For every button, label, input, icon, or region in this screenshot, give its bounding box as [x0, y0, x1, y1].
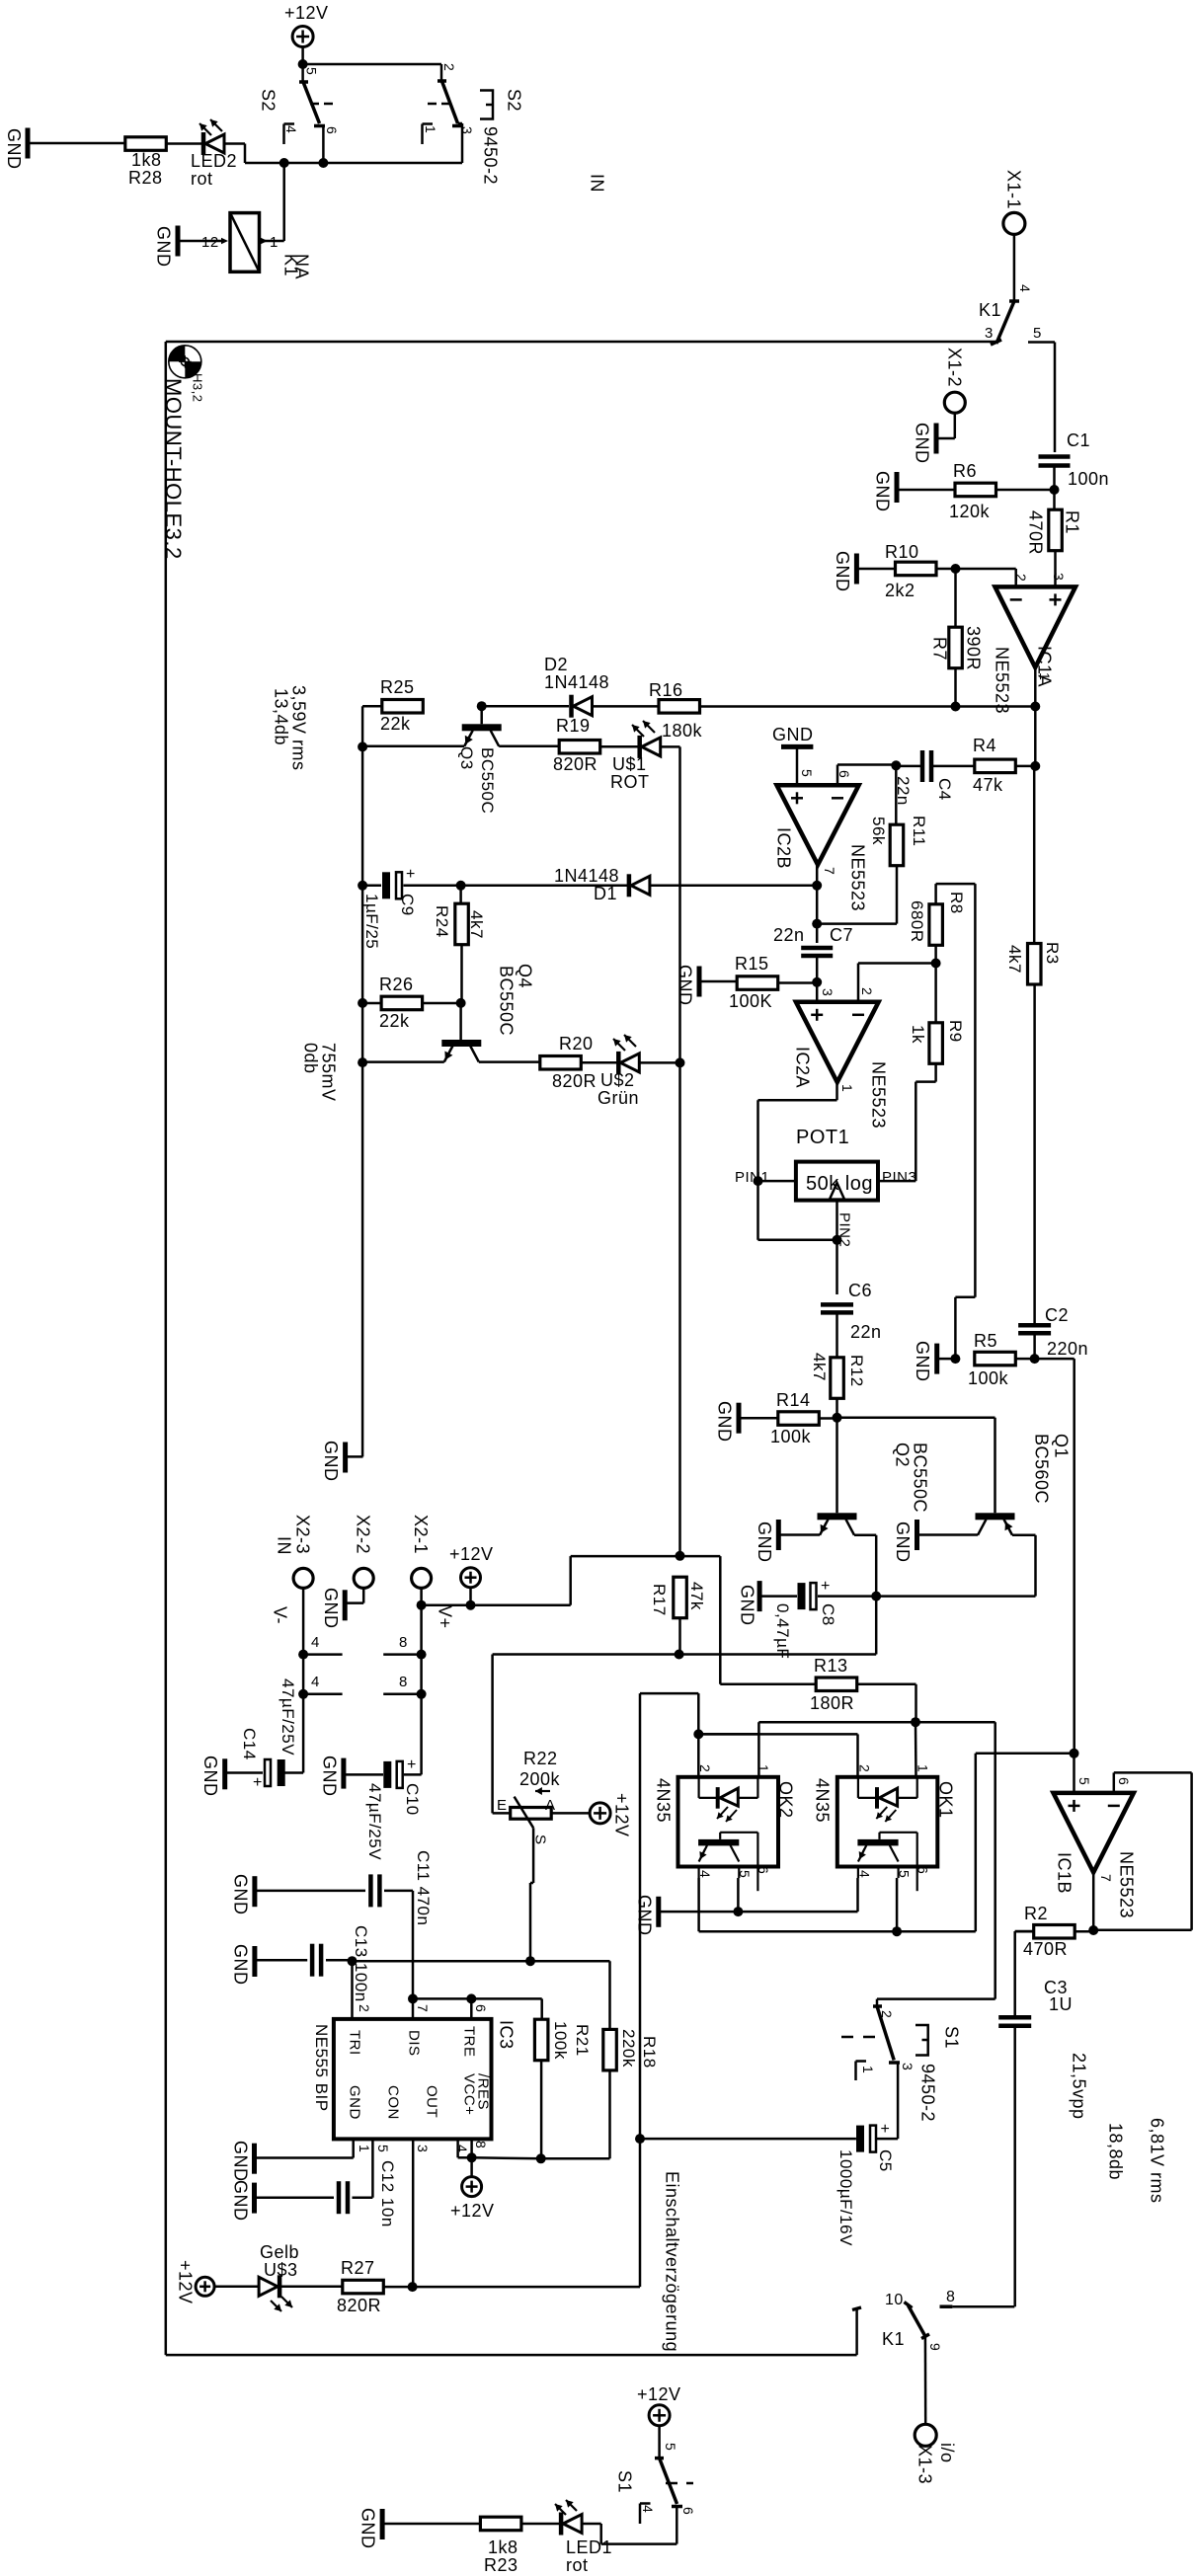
- svg-text:200k: 200k: [519, 1769, 561, 1789]
- label 22n (C6): [850, 1322, 882, 1342]
- wire bus jog to OK2 pin2 node: [698, 1733, 758, 1736]
- svg-text:Q1: Q1: [1052, 1434, 1072, 1458]
- svg-text:X2-1: X2-1: [411, 1515, 431, 1554]
- label 470R: [1026, 510, 1046, 555]
- wire C2 up to R3: [1033, 983, 1036, 1324]
- label C1: [1067, 430, 1090, 450]
- svg-text:Gelb: Gelb: [260, 2242, 299, 2262]
- svg-text:5: 5: [1076, 1777, 1092, 1785]
- svg-text:R14: R14: [776, 1390, 811, 1410]
- capacitor C9 1uF/25 (polarized): [382, 866, 416, 898]
- wire C8 right plate to junction: [818, 1595, 876, 1598]
- wire OK2pin2-OK1pin2 tie: [0, 0, 1, 1]
- svg-text:D1: D1: [594, 884, 617, 903]
- svg-text:C10: C10: [403, 1783, 422, 1816]
- label C14: [240, 1728, 259, 1760]
- svg-text:IN: IN: [588, 174, 607, 193]
- wire V- rail: [302, 1655, 305, 1694]
- node junction IC2B out/D1: [812, 881, 822, 891]
- svg-text:5: 5: [737, 1870, 753, 1878]
- svg-text:i/o: i/o: [937, 2443, 957, 2463]
- svg-text:3: 3: [415, 2145, 431, 2152]
- svg-text:2: 2: [1013, 574, 1029, 582]
- label Einschaltverzoegerung: [663, 2171, 682, 2352]
- wire X1-1 down to K1 pin4: [1013, 235, 1016, 302]
- label IC2A: [793, 1047, 813, 1088]
- svg-text:R15: R15: [735, 954, 769, 974]
- svg-text:220n: 220n: [1047, 1339, 1088, 1359]
- label 470R (R2): [1023, 1939, 1068, 1959]
- label R15: [735, 954, 769, 974]
- svg-text:C7: C7: [830, 925, 853, 945]
- svg-text:9450-2: 9450-2: [481, 126, 501, 185]
- wire R27 to OUT junction: [383, 2286, 412, 2289]
- svg-text:S2: S2: [259, 89, 279, 112]
- pin stub 4 of S1 bottom: [640, 2504, 656, 2525]
- label pin 2 of S1: [879, 2010, 895, 2018]
- node junction R4/output column: [1030, 761, 1040, 771]
- svg-text:47µF/25V: 47µF/25V: [279, 1678, 297, 1756]
- wire IN perimeter bottom (frame): [166, 2354, 857, 2357]
- svg-text:GND: GND: [893, 1522, 913, 1563]
- label D2: [544, 655, 568, 674]
- label R6: [953, 461, 977, 481]
- ground GND (C11): [231, 1874, 255, 1915]
- label 820R (R27): [337, 2296, 381, 2315]
- capacitor C5 1000uF/16V (polarized): [856, 2121, 890, 2152]
- svg-text:GND: GND: [873, 471, 893, 512]
- resistor R12 4k7: [831, 1358, 844, 1399]
- node junction R21 bottom: [536, 2153, 546, 2163]
- capacitor C1 100n: [1039, 457, 1071, 466]
- dashed mechanical coupling S2: [310, 103, 450, 106]
- label Q4: [516, 964, 535, 988]
- wire LED1 to R23: [521, 2523, 559, 2526]
- node junction R22 S joins: [525, 1956, 535, 1966]
- label C7: [830, 925, 853, 945]
- svg-text:470R: 470R: [1026, 510, 1046, 555]
- label C8: [819, 1603, 837, 1626]
- capacitor C10 47uF/25V (polarized): [383, 1756, 417, 1788]
- bracket mechanical S2: [480, 91, 493, 119]
- wire R2 left to C3 corner: [1015, 1930, 1034, 1933]
- svg-text:13,4db: 13,4db: [272, 688, 291, 745]
- wire node to IC1B pin5: [1073, 1754, 1075, 1793]
- label Gelb: [260, 2242, 299, 2262]
- wire R19 to U$1: [600, 745, 640, 748]
- label 1N4148 (D2): [544, 672, 609, 692]
- label H3,2: [190, 373, 204, 402]
- wire R1 to IC1A pin3: [1054, 551, 1057, 587]
- wire GND to R14: [739, 1417, 778, 1420]
- pin arrow 1 of K1 coil: [261, 234, 279, 251]
- wire junction to IC2A pin3: [816, 982, 819, 1002]
- svg-text:3: 3: [900, 2063, 915, 2070]
- svg-text:5: 5: [375, 2145, 391, 2152]
- node junction rail/C9: [358, 881, 367, 891]
- label 22k (R26): [379, 1011, 410, 1031]
- label NE5523 (IC2A): [869, 1061, 889, 1129]
- label NE5523 (IC1B): [1117, 1851, 1137, 1918]
- label S: [532, 1834, 549, 1845]
- wire S2b pin3 down to LED node: [323, 123, 462, 163]
- label K1 (bottom): [882, 2329, 905, 2349]
- resistor R8 680R: [929, 904, 943, 946]
- label R22: [523, 1749, 558, 1768]
- svg-text:8: 8: [399, 1674, 408, 1690]
- label U$1: [612, 754, 647, 774]
- svg-text:+12V: +12V: [637, 2384, 681, 2404]
- wire bus right to S1 column: [915, 1721, 995, 1724]
- svg-text:R2: R2: [1024, 1904, 1048, 1923]
- svg-text:R10: R10: [885, 542, 919, 562]
- svg-text:GND: GND: [4, 128, 24, 170]
- wire GND to R6: [897, 489, 955, 492]
- node junction PIN1: [754, 1176, 763, 1186]
- svg-text:GND: GND: [321, 1441, 341, 1482]
- label R8: [947, 892, 966, 914]
- svg-text:6: 6: [1116, 1777, 1132, 1785]
- svg-text:5: 5: [896, 1870, 912, 1878]
- svg-text:C1: C1: [1067, 430, 1090, 450]
- label IC3: [497, 2020, 517, 2050]
- label pin 5: [375, 2145, 391, 2152]
- label 2k2: [885, 581, 915, 600]
- svg-text:GND: GND: [320, 1756, 340, 1797]
- svg-text:BC550C: BC550C: [478, 747, 497, 814]
- label pin 7 DIS: [406, 2004, 431, 2057]
- svg-text:180k: 180k: [662, 721, 703, 741]
- svg-text:1: 1: [423, 125, 438, 133]
- svg-text:IN: IN: [275, 1536, 294, 1555]
- power +12V supply (U$3): [176, 2260, 215, 2304]
- svg-text:Q2: Q2: [893, 1443, 913, 1467]
- wire R22 A to +12V circle: [551, 1812, 590, 1815]
- node junction C1/R6/R1: [1050, 485, 1060, 495]
- svg-text:BC550C: BC550C: [497, 966, 517, 1036]
- wire C3 up to R2 corner: [1015, 1931, 1034, 2017]
- transistor Q3 BC550C: [462, 724, 502, 746]
- label R14: [776, 1390, 811, 1410]
- wire OK1 pin1 drop: [915, 1722, 917, 1777]
- svg-text:+: +: [821, 1578, 831, 1595]
- svg-text:GND: GND: [715, 1401, 735, 1443]
- svg-text:3: 3: [1051, 573, 1067, 581]
- pin stub 8 (IC power row1): [383, 1634, 421, 1655]
- label 13,4db: [272, 688, 291, 745]
- label C11 470n: [414, 1850, 433, 1925]
- svg-text:GND: GND: [772, 725, 814, 744]
- wire GND to R5 junction: [937, 1358, 956, 1361]
- svg-text:1: 1: [357, 2145, 372, 2152]
- ground GND (X2-2): [321, 1588, 345, 1629]
- label pin 7 of IC1B: [1098, 1874, 1114, 1882]
- transistor Q2 BC550C: [818, 1513, 857, 1535]
- svg-text:A: A: [545, 1797, 556, 1814]
- label pin 9 of K1: [927, 2343, 943, 2351]
- connector pad X1-3: [915, 2424, 936, 2446]
- wire C5 tap: [640, 2138, 856, 2141]
- svg-text:C11 470n: C11 470n: [414, 1850, 433, 1925]
- wire IC1A output pin1: [1034, 667, 1037, 707]
- wire junction to C4: [896, 765, 922, 768]
- svg-text:CON: CON: [385, 2085, 402, 2120]
- wire D1 to IC2B output junction: [650, 885, 817, 888]
- svg-text:R20: R20: [559, 1034, 594, 1054]
- ground GND (Q2): [755, 1520, 778, 1563]
- label NA: [292, 254, 312, 279]
- svg-text:9450-2: 9450-2: [918, 2064, 938, 2122]
- wire output row to R16: [699, 705, 1035, 708]
- LED U$2 Gruen: [613, 1035, 639, 1074]
- svg-text:4N35: 4N35: [654, 1778, 674, 1823]
- svg-text:6: 6: [836, 770, 852, 778]
- resistor R7 390R: [949, 627, 963, 668]
- svg-text:X1-1: X1-1: [1003, 170, 1023, 209]
- label 9450-2 (S1): [918, 2064, 938, 2122]
- wire R13 right corner down: [857, 1684, 916, 1722]
- label X1-3: [915, 2445, 935, 2484]
- svg-text:22k: 22k: [379, 1011, 410, 1031]
- wire +12V circle down: [469, 1588, 472, 1605]
- svg-text:GND: GND: [231, 1874, 251, 1915]
- label PIN1: [735, 1169, 769, 1186]
- switch S1 lever pins 2-3: [873, 2006, 900, 2063]
- wire D1 row: [461, 885, 629, 888]
- power +12V supply (R22): [590, 1793, 631, 1837]
- wire junction to Q2 base: [836, 1418, 838, 1514]
- label R27: [341, 2258, 375, 2278]
- switch K1 contact lever 4-3: [991, 301, 1019, 345]
- wire OK1 pin5 to row: [896, 1878, 899, 1931]
- label 3,59V rms: [289, 685, 309, 771]
- power +12V supply (NE555): [450, 2177, 495, 2221]
- label R20: [559, 1034, 594, 1054]
- label 9450-2 (S2 value): [481, 126, 501, 185]
- label 820R (R20): [552, 1071, 597, 1091]
- label LED1: [566, 2537, 612, 2557]
- svg-text:3: 3: [820, 988, 836, 996]
- pin arrow 12 of K1 coil: [201, 234, 228, 251]
- label 8 (K1): [946, 2289, 955, 2305]
- node junction OK2 pin5/GND: [733, 1907, 743, 1916]
- node junction +12V bus: [466, 1600, 476, 1610]
- label 21,5vpp: [1070, 2053, 1089, 2120]
- svg-text:755mV: 755mV: [319, 1043, 339, 1102]
- svg-text:6: 6: [756, 1866, 771, 1874]
- wire C12 to GND: [255, 2196, 335, 2199]
- svg-text:2: 2: [357, 2004, 372, 2012]
- wire IC2A output to PIN1: [758, 1082, 837, 1181]
- svg-text:NE5523: NE5523: [1117, 1851, 1137, 1918]
- label C2: [1045, 1305, 1069, 1325]
- resistor R13 180R: [816, 1678, 857, 1691]
- wire IC2B pin6 up and right: [837, 765, 896, 786]
- wire C7 to R15 junction: [816, 957, 819, 982]
- node junction R7 row: [951, 702, 961, 712]
- wire +12V to S1 lever: [658, 2426, 661, 2459]
- switch K1 bottom lever 10-9: [905, 2303, 930, 2339]
- svg-text:+12V: +12V: [449, 1544, 494, 1564]
- wire GND to C8: [759, 1595, 797, 1598]
- svg-text:OK1: OK1: [936, 1781, 956, 1819]
- svg-text:R25: R25: [380, 677, 415, 697]
- label POT1: [796, 1127, 849, 1148]
- wire C10 to V+ rail: [404, 1773, 422, 1776]
- wire junction right to R18 top: [353, 1961, 610, 2029]
- ground GND (R5): [913, 1341, 937, 1382]
- svg-text:R26: R26: [379, 975, 414, 994]
- svg-text:+: +: [406, 866, 416, 883]
- svg-text:C6: C6: [848, 1281, 872, 1300]
- wire pin5 to C12: [353, 2139, 373, 2197]
- label pin 5 of S2a: [303, 67, 319, 75]
- wire S1 pin6 to LED1: [583, 2507, 677, 2544]
- label 18,8db: [1106, 2123, 1126, 2180]
- svg-text:IC2A: IC2A: [793, 1047, 813, 1088]
- svg-text:R4: R4: [973, 736, 996, 755]
- svg-text:GND: GND: [635, 1895, 655, 1936]
- label 390R: [964, 626, 984, 670]
- svg-text:C8: C8: [819, 1603, 837, 1626]
- svg-text:5: 5: [663, 2443, 678, 2451]
- diode D1 1N4148: [629, 874, 650, 897]
- label 6,81V rms: [1148, 2118, 1167, 2204]
- wire R18 bottom to pin8 bus: [541, 2070, 610, 2158]
- svg-text:NA: NA: [292, 254, 312, 279]
- label 1U: [1049, 1994, 1073, 2014]
- svg-text:MOUNT-HOLE3.2: MOUNT-HOLE3.2: [161, 378, 186, 560]
- svg-text:100K: 100K: [729, 991, 772, 1011]
- label 1uF/25: [362, 894, 381, 949]
- LED U$1 ROT: [632, 721, 661, 758]
- node junction Q2 coll/C8/Q1 emitter: [871, 1592, 881, 1601]
- label 200k: [519, 1769, 561, 1789]
- wire R5 to C2 junction: [1015, 1358, 1035, 1361]
- op-amp IC1B NE5523: [1054, 1793, 1134, 1873]
- wire R24 top: [459, 886, 462, 904]
- wire X2-3 down V- rail: [302, 1589, 305, 1655]
- label pin 7 of IC2B: [822, 867, 837, 875]
- svg-text:S1: S1: [615, 2470, 635, 2493]
- svg-text:5: 5: [799, 769, 815, 777]
- wire R20 to U$2: [582, 1061, 619, 1064]
- wire E-row left to R22 E: [493, 1655, 679, 1814]
- svg-text:470R: 470R: [1023, 1939, 1068, 1959]
- wire V+ rail: [420, 1605, 423, 1694]
- label D1: [594, 884, 617, 903]
- svg-text:2: 2: [856, 1764, 872, 1772]
- label V-: [271, 1606, 290, 1624]
- wire U$2 to LED column junction: [639, 1061, 680, 1064]
- capacitor C12 10n: [339, 2181, 348, 2214]
- svg-text:GND: GND: [913, 423, 932, 464]
- switch S1 bottom lever 5-6: [655, 2459, 682, 2507]
- svg-text:4: 4: [856, 1870, 872, 1878]
- label pin 2 of IC2A: [859, 987, 875, 995]
- wire junction right to Q1 base: [837, 1418, 995, 1514]
- svg-text:C4: C4: [935, 778, 954, 801]
- svg-text:R28: R28: [128, 168, 163, 188]
- label 1k (R9): [909, 1025, 927, 1044]
- wire R8 top corner: [936, 884, 976, 904]
- wire K1 pin5 down to C1: [1054, 343, 1057, 453]
- wire out row right up to IC1B node: [897, 1754, 1074, 1931]
- LED LED1 rot: [555, 2500, 582, 2536]
- svg-text:1k8: 1k8: [488, 2537, 518, 2557]
- label S1 (bottom): [615, 2470, 635, 2493]
- dashed coupling S1: [841, 2036, 882, 2039]
- svg-text:GND: GND: [200, 1756, 220, 1797]
- capacitor C8 0,47uF (polarized): [798, 1578, 831, 1609]
- label rot (LED1): [566, 2555, 589, 2575]
- wire +12V bus right and up: [422, 1556, 680, 1605]
- wire pin4 pin8 bus: [458, 2139, 472, 2176]
- svg-text:C9: C9: [398, 894, 417, 916]
- ground GND (OK2 pin5): [635, 1895, 659, 1936]
- wire GND to K1 coil pin12: [178, 240, 222, 243]
- svg-text:PIN3: PIN3: [882, 1169, 916, 1186]
- svg-text:K1: K1: [882, 2329, 905, 2349]
- svg-text:R21: R21: [573, 2024, 592, 2057]
- node junction left rail / Q3 emitter: [358, 742, 367, 751]
- LED U$3 Gelb: [259, 2275, 292, 2311]
- resistor R16 180k: [659, 700, 700, 714]
- wire S1 pin2 up-left to x1008 column: [877, 1722, 995, 2006]
- svg-text:R16: R16: [649, 680, 683, 700]
- label 100k (R14): [770, 1427, 812, 1446]
- wire K1 pin10 riser: [852, 2307, 861, 2355]
- svg-text:22k: 22k: [380, 714, 411, 734]
- svg-text:C2: C2: [1045, 1305, 1069, 1325]
- label PIN2: [836, 1212, 853, 1247]
- svg-text:GND: GND: [154, 226, 174, 268]
- node junction C13/TRI/R18: [348, 1956, 358, 1966]
- svg-text:R18: R18: [640, 2036, 659, 2069]
- wire LED2 to node: [224, 144, 284, 164]
- wire R2 to junction: [1075, 1930, 1093, 1933]
- svg-text:GND: GND: [231, 2141, 251, 2182]
- svg-text:+: +: [881, 2121, 891, 2138]
- svg-text:5: 5: [303, 67, 319, 75]
- wire GND row to OK1 pin4: [659, 1878, 858, 1912]
- wire GND to Q2 emitter: [778, 1533, 820, 1536]
- label K1 (top switch): [979, 300, 1001, 320]
- svg-text:100k: 100k: [968, 1368, 1009, 1388]
- svg-text:+12V: +12V: [450, 2201, 495, 2221]
- wire OK1 pin2 link: [698, 1734, 857, 1777]
- svg-text:GND: GND: [358, 2508, 378, 2549]
- wire R26 left to rail: [362, 1002, 381, 1005]
- label E: [497, 1797, 508, 1814]
- node junction IC1B pin5 node: [1070, 1749, 1079, 1758]
- label IC1B: [1055, 1852, 1075, 1894]
- label 755mV: [319, 1043, 339, 1102]
- label 47k (R4): [973, 775, 1003, 795]
- label S2 (right, device name): [505, 89, 524, 112]
- wire pot wiper PIN2: [836, 1201, 838, 1240]
- wire OK2 pin5 to GND dot: [737, 1878, 740, 1912]
- wire C2 junction right and down (to IC1B): [1035, 1359, 1075, 1754]
- switch S2a lever pins 5-6: [299, 64, 325, 126]
- wire PIN1 to pot: [758, 1180, 796, 1183]
- wire R21 bottom to pin8 bus: [540, 2061, 543, 2158]
- label i/o: [937, 2443, 957, 2463]
- label R23: [484, 2555, 518, 2575]
- label 180R: [810, 1693, 854, 1713]
- svg-text:2: 2: [697, 1764, 713, 1772]
- svg-text:R23: R23: [484, 2555, 518, 2575]
